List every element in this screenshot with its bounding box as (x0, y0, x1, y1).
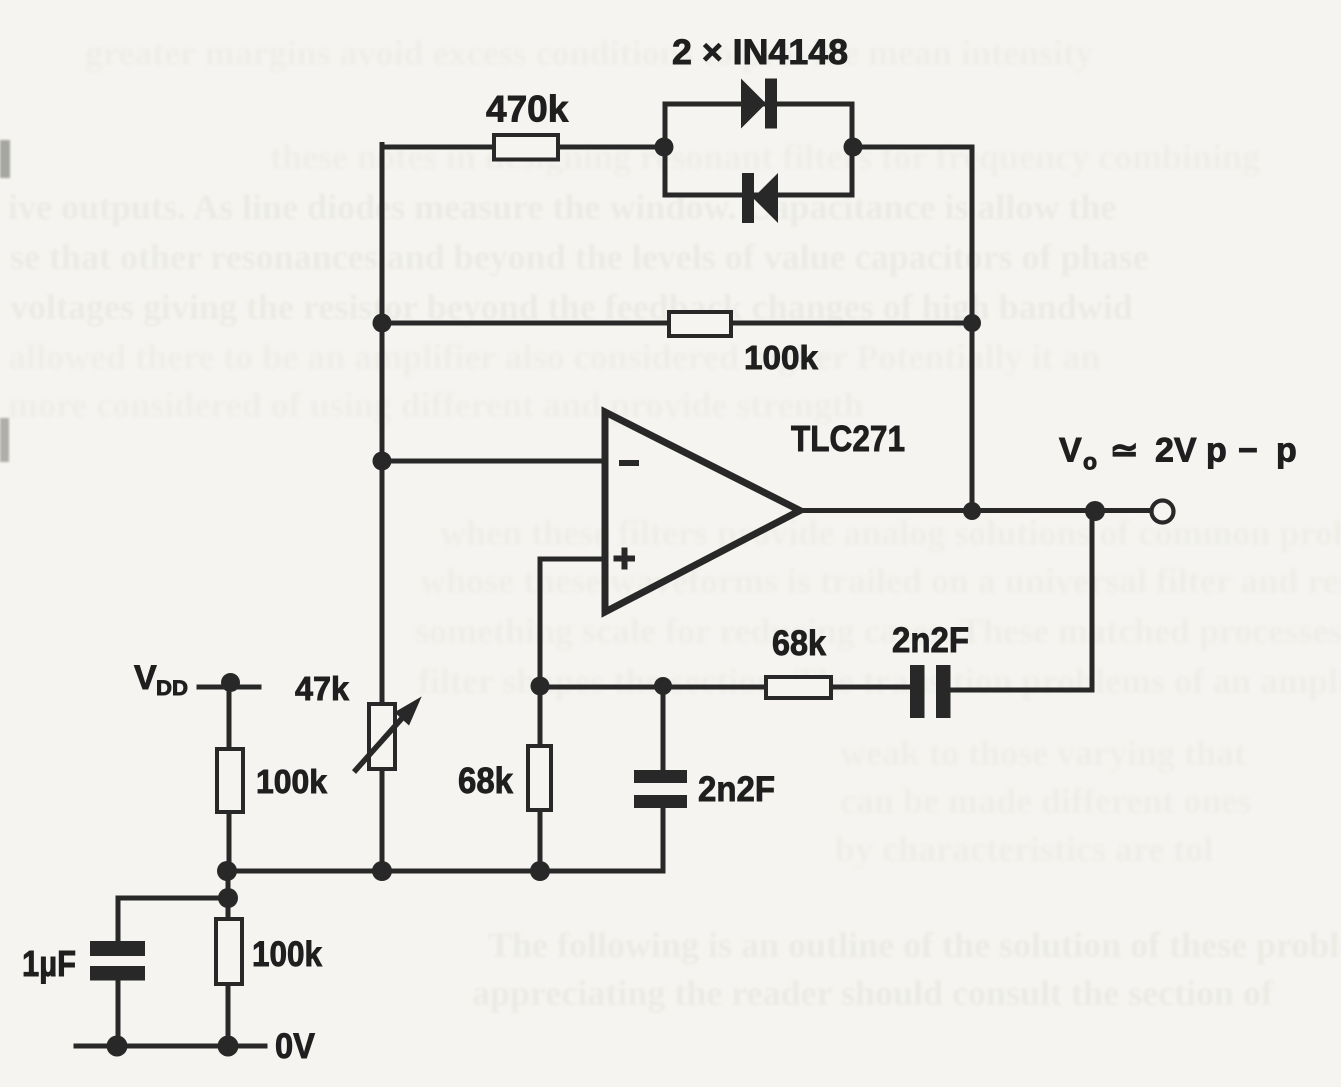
wire 1uF bottom lead (116, 980, 121, 1046)
svg-text:VDD: VDD (134, 659, 188, 700)
wire mid ground rail (227, 869, 663, 874)
wire inverting input (382, 459, 604, 464)
wire bottom 0V rail (76, 1044, 265, 1049)
wire diode network left vertical (663, 104, 668, 195)
wire 1uF upper lead (116, 898, 121, 941)
svg-text:2n2F: 2n2F (698, 770, 775, 809)
capacitor 2n2F series right plate (936, 665, 951, 718)
svg-text:2 × IN4148: 2 × IN4148 (672, 33, 848, 72)
wire shunt cap lower lead (661, 808, 666, 871)
wire lower node to 1uF branch (118, 896, 228, 901)
wire feedback right segment up to output (949, 511, 1092, 690)
resistor 100k VDD body (217, 749, 243, 812)
wire left rail vertical (380, 145, 385, 872)
wire top-left horizontal to 470k (382, 145, 496, 150)
junction diode left node (655, 138, 674, 157)
wire diode network top branch (665, 102, 852, 107)
svg-text:100k: 100k (256, 763, 328, 800)
op-amp TLC271 triangle (605, 412, 800, 612)
capacitor 1uF top plate (90, 941, 145, 956)
capacitor 2n2F shunt bottom plate (634, 795, 687, 808)
junction output at right rail (963, 502, 981, 520)
wire VDD stub (199, 685, 259, 690)
wire 68k branch lower lead (538, 810, 543, 871)
wire VDD resistor upper lead (227, 687, 232, 749)
svg-text:68k: 68k (772, 624, 826, 663)
capacitor 2n2F shunt top plate (634, 770, 687, 783)
svg-text:47k: 47k (295, 670, 350, 707)
capacitor 1uF bottom plate (90, 966, 145, 981)
resistor 68k vertical body (528, 746, 551, 810)
resistor 470k body (494, 135, 558, 160)
wire middle 100k left segment (382, 321, 669, 326)
resistor 68k horizontal body (766, 677, 831, 698)
junction bottom rail 1uF (107, 1036, 128, 1057)
wire feedback mid segment (831, 685, 910, 690)
wire diode network right node to right rail corner (853, 145, 972, 150)
op-amp plus symbol (614, 548, 636, 570)
svg-text:100k: 100k (744, 339, 819, 376)
diode D1 triangle (741, 79, 766, 129)
wire diode network bottom branch (665, 193, 852, 198)
wire VDD resistor lower lead (227, 812, 232, 871)
svg-text:2n2F: 2n2F (892, 621, 969, 660)
svg-text:Vo≃2Vp−p: Vo≃2Vp−p (1059, 432, 1297, 475)
wire 470k to diode network left node (558, 145, 665, 150)
resistor 100k feedback body (669, 312, 731, 336)
junction rail VDD divider (217, 861, 237, 881)
wire lower 100k bottom lead (226, 984, 231, 1046)
wire op-amp output (800, 508, 1150, 513)
wire shunt cap upper lead (661, 687, 666, 770)
op-amp minus symbol (619, 460, 639, 466)
junction VDD terminal (221, 673, 240, 692)
potentiometer 47k body (369, 704, 395, 769)
junction bottom rail 100k (218, 1036, 239, 1057)
diode D1 cathode bar (765, 79, 777, 129)
junction 100k right rail (963, 314, 981, 332)
wire non-inverting input (540, 559, 604, 687)
junction output takeoff (1085, 501, 1105, 521)
svg-text:68k: 68k (458, 760, 514, 801)
wire 68k branch upper lead (538, 687, 543, 746)
svg-text:1µF: 1µF (22, 943, 76, 984)
resistor 100k lower body (216, 919, 242, 984)
junction lower node (218, 888, 238, 908)
svg-text:470k: 470k (486, 89, 569, 130)
junction feedback shunt cap (654, 677, 672, 695)
junction feedback 68k (531, 677, 550, 696)
junction left rail inverting input (373, 452, 392, 471)
output terminal circle (1152, 501, 1174, 523)
svg-text:TLC271: TLC271 (791, 418, 905, 459)
diode D2 cathode bar (742, 173, 754, 223)
svg-text:0V: 0V (275, 1027, 316, 1066)
wire feedback left segment (540, 685, 766, 690)
diode D2 triangle (753, 173, 778, 223)
wire right rail vertical (970, 147, 975, 511)
svg-text:100k: 100k (252, 935, 322, 974)
junction left rail 100k (373, 314, 392, 333)
capacitor 2n2F series left plate (910, 665, 925, 718)
wire rail to lower node (226, 871, 231, 919)
wire diode network right vertical (850, 104, 855, 195)
junction diode right node (844, 138, 863, 157)
junction rail 47k (372, 861, 392, 881)
potentiometer 47k arrow (354, 700, 419, 772)
wire middle 100k right segment (731, 321, 972, 326)
junction rail 68k (530, 861, 550, 881)
